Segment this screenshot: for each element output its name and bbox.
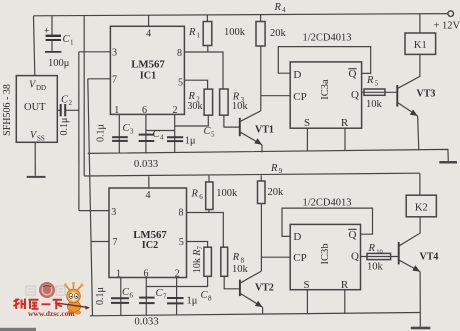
- svg-text:0.033: 0.033: [134, 158, 158, 170]
- svg-text:100k: 100k: [224, 27, 246, 38]
- svg-text:K1: K1: [414, 40, 427, 51]
- svg-text:6: 6: [142, 105, 147, 116]
- svg-text:VT4: VT4: [420, 252, 439, 263]
- svg-text:6: 6: [130, 292, 134, 300]
- svg-text:8: 8: [208, 295, 212, 303]
- svg-text:100μ: 100μ: [48, 58, 70, 69]
- svg-text:1: 1: [70, 39, 74, 47]
- svg-text:DD: DD: [36, 84, 46, 92]
- svg-text:20k: 20k: [270, 28, 287, 39]
- svg-text:0.1μ: 0.1μ: [59, 118, 70, 136]
- svg-text:5: 5: [375, 80, 379, 88]
- svg-text:5: 5: [211, 131, 215, 139]
- svg-text:8: 8: [177, 48, 182, 59]
- svg-text:1/2CD4013: 1/2CD4013: [302, 198, 351, 209]
- svg-text:R: R: [366, 75, 374, 86]
- svg-text:www.dzsc.com: www.dzsc.com: [28, 309, 75, 318]
- svg-text:2: 2: [173, 105, 178, 116]
- svg-text:R: R: [341, 279, 349, 291]
- svg-text:R: R: [274, 2, 282, 13]
- svg-text:R: R: [232, 252, 240, 263]
- svg-text:IC1: IC1: [140, 71, 156, 82]
- svg-text:10k: 10k: [232, 264, 249, 275]
- svg-text:D: D: [293, 231, 301, 243]
- svg-text:Q: Q: [351, 251, 359, 263]
- svg-text:R: R: [188, 27, 196, 38]
- svg-text:10: 10: [376, 249, 383, 256]
- svg-text:K2: K2: [415, 203, 428, 214]
- svg-text:0.1μ: 0.1μ: [95, 287, 106, 305]
- svg-text:+: +: [44, 26, 49, 36]
- svg-text:R: R: [270, 163, 278, 174]
- svg-text:5: 5: [179, 237, 184, 248]
- svg-text:CP: CP: [293, 91, 306, 103]
- svg-text:10k: 10k: [367, 262, 384, 273]
- svg-text:1μ: 1μ: [185, 136, 196, 147]
- svg-text:IC3b: IC3b: [320, 244, 331, 265]
- svg-text:7: 7: [163, 293, 167, 301]
- svg-text:VT1: VT1: [255, 124, 274, 135]
- svg-text:10k: 10k: [366, 99, 383, 110]
- svg-text:3: 3: [111, 207, 116, 218]
- svg-text:7: 7: [113, 237, 118, 248]
- svg-text:1/2CD4013: 1/2CD4013: [302, 32, 351, 43]
- svg-text:30k: 30k: [187, 101, 203, 112]
- svg-text:0.1μ: 0.1μ: [96, 124, 107, 142]
- svg-text:OUT: OUT: [24, 102, 46, 113]
- svg-text:SFH506 - 38: SFH506 - 38: [2, 84, 13, 136]
- svg-text:1μ: 1μ: [187, 296, 198, 307]
- svg-text:Q: Q: [349, 229, 357, 241]
- svg-text:Q: Q: [349, 68, 357, 80]
- svg-text:8: 8: [179, 207, 184, 218]
- svg-text:S: S: [303, 279, 309, 291]
- svg-text:D: D: [293, 69, 301, 81]
- svg-text:100k: 100k: [216, 188, 238, 199]
- svg-text:4: 4: [282, 6, 286, 14]
- svg-text:20k: 20k: [268, 187, 285, 198]
- svg-text:R: R: [368, 243, 376, 254]
- svg-text:VT3: VT3: [417, 89, 436, 100]
- svg-text:3: 3: [112, 47, 117, 58]
- svg-text:3: 3: [130, 128, 134, 136]
- svg-text:Q: Q: [351, 89, 359, 101]
- svg-text:R: R: [341, 117, 349, 129]
- svg-text:VT2: VT2: [255, 283, 274, 294]
- svg-text:4: 4: [146, 190, 151, 201]
- svg-text:4: 4: [160, 134, 164, 142]
- svg-text:5: 5: [178, 78, 183, 89]
- svg-text:+ 12V: + 12V: [434, 21, 460, 32]
- svg-text:LM567: LM567: [131, 59, 165, 71]
- svg-text:1: 1: [197, 32, 201, 40]
- svg-text:0.033: 0.033: [134, 316, 158, 328]
- svg-text:10k R7: 10k R7: [192, 245, 204, 273]
- svg-text:9: 9: [279, 167, 283, 175]
- svg-text:2: 2: [175, 268, 180, 279]
- svg-text:IC3a: IC3a: [320, 79, 331, 100]
- svg-text:CP: CP: [293, 252, 306, 264]
- svg-text:S: S: [304, 117, 310, 129]
- svg-text:IC2: IC2: [142, 240, 158, 251]
- svg-text:10k: 10k: [232, 101, 249, 112]
- svg-text:1: 1: [114, 105, 119, 116]
- svg-text:R: R: [191, 189, 199, 200]
- svg-text:SS: SS: [37, 135, 45, 143]
- svg-text:6: 6: [199, 193, 203, 201]
- svg-text:4: 4: [146, 29, 151, 40]
- svg-text:2: 2: [69, 99, 73, 107]
- svg-text:7: 7: [112, 75, 117, 86]
